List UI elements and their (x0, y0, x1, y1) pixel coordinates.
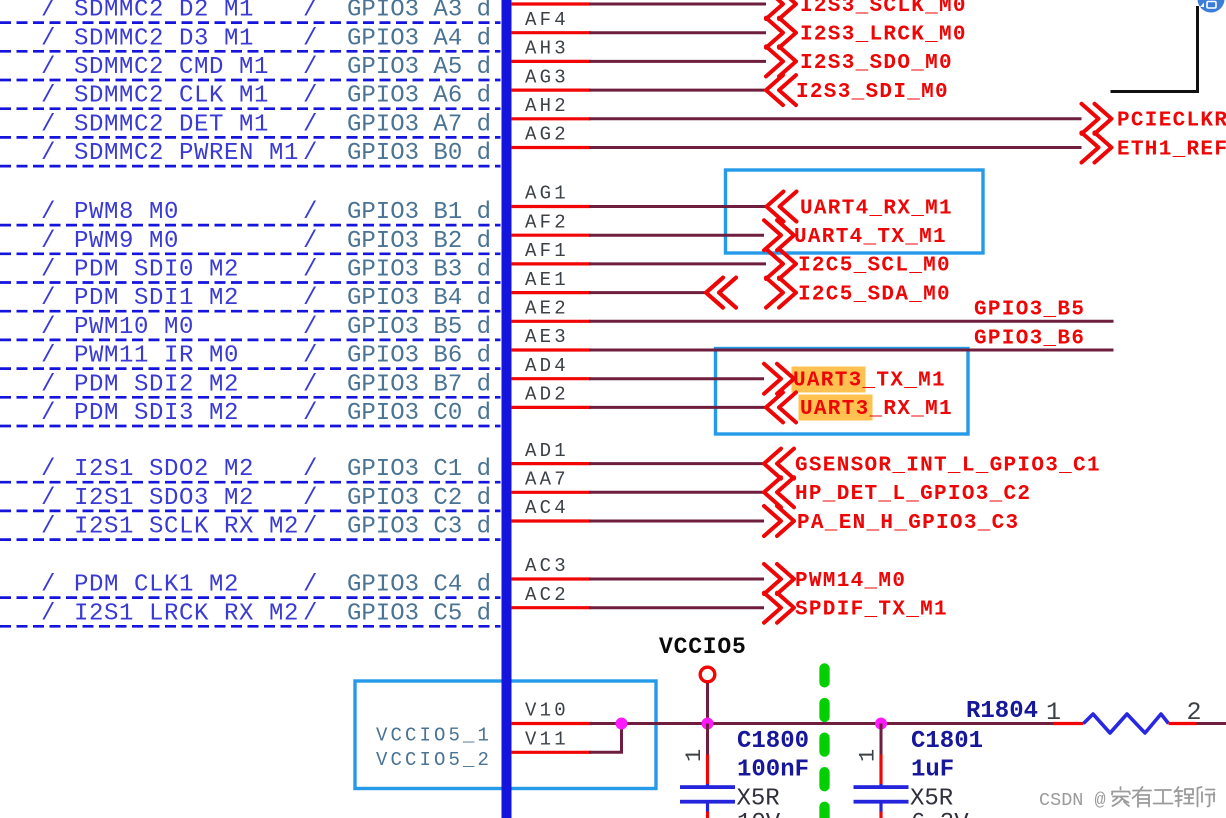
wire pin stub AG2 net ETH1_REFCL (511, 146, 591, 149)
off-page connector output UART4_TX_M1 (764, 220, 947, 250)
svg-text:GPIO3 B6 d: GPIO3 B6 d (347, 343, 491, 370)
svg-text:GPIO3 C1 d: GPIO3 C1 d (347, 456, 491, 483)
svg-text:SDMMC2 CLK M1: SDMMC2 CLK M1 (74, 83, 269, 110)
svg-text:V10: V10 (525, 700, 569, 722)
off-page connector output PCIECLKREQ (1082, 104, 1226, 134)
node alternate function label PWM9_M0 / GPIO3_B2_d (41, 228, 491, 255)
wire net HP_DET_L_GPIO3_C2 (589, 491, 764, 494)
svg-text:2: 2 (1187, 698, 1202, 727)
svg-text:/: / (303, 0, 318, 24)
chip symbol body edge (GPIO3 bank) (502, 0, 512, 818)
off-page connector output UART3_TX_M1 (764, 364, 946, 394)
svg-text:PWM8 M0: PWM8 M0 (74, 199, 179, 226)
svg-text:SDMMC2 PWREN M1: SDMMC2 PWREN M1 (74, 140, 299, 167)
wire dashed alternate-function line 12 (0, 367, 501, 370)
svg-text:10V: 10V (737, 810, 781, 818)
svg-text:GPIO3 A5 d: GPIO3 A5 d (347, 54, 491, 81)
svg-text:VCCIO5: VCCIO5 (659, 634, 747, 660)
svg-text:PWM14_M0: PWM14_M0 (795, 570, 906, 593)
node alternate function label SDMMC2_PWREN_M1 / GPIO3_B0_d (41, 140, 491, 167)
junction node C1801 (875, 718, 887, 730)
wire net I2S3_SCLK_M0 (589, 3, 766, 6)
off-page connector output I2S3_SCLK_M0 (766, 0, 967, 19)
off-page connector output I2C5_SCL_M0 (766, 249, 951, 279)
wire pin stub AE3 net GPIO3_B6 (511, 348, 591, 351)
highlight search-match UART3 (TX) (792, 367, 866, 393)
wire pin stub V11 (511, 751, 591, 754)
svg-text:GPIO3 B2 d: GPIO3 B2 d (347, 228, 491, 255)
wire net PA_EN_H_GPIO3_C3 (589, 520, 764, 523)
wire pin stub AD2 net UART3_RX_M1 (511, 406, 591, 409)
svg-text:/: / (41, 257, 56, 284)
capacitor C1801 (854, 724, 909, 818)
svg-text:/: / (41, 228, 56, 255)
svg-text:X5R: X5R (910, 786, 953, 813)
svg-text:/: / (41, 371, 56, 398)
svg-text:/: / (41, 140, 56, 167)
wire pin stub AC3 net PWM14_M0 (511, 577, 591, 580)
svg-text:UART3_TX_M1: UART3_TX_M1 (793, 370, 946, 393)
wire net UART4_TX_M1 (589, 234, 764, 237)
svg-text:AD2: AD2 (525, 384, 569, 406)
svg-text:AE1: AE1 (525, 269, 569, 291)
svg-text:AE3: AE3 (525, 326, 569, 348)
svg-text:/: / (41, 25, 56, 52)
svg-text:PDM SDI2 M2: PDM SDI2 M2 (74, 371, 239, 398)
svg-text:PDM CLK1 M2: PDM CLK1 M2 (74, 572, 239, 599)
wire pin stub AH3 net I2S3_SDO_M0 (511, 60, 591, 63)
off-page connector input HP_DET_L_GPIO3_C2 (764, 477, 1031, 507)
node alternate function label PWM10_M0 / GPIO3_B5_d (41, 314, 491, 341)
svg-text:/: / (41, 600, 56, 627)
wire dashed alternate-function line 19 (0, 625, 501, 628)
node alternate function label I2S1_SDO2_M2 / GPIO3_C1_d (41, 456, 491, 483)
wire V11 to V10 join (589, 724, 622, 753)
node alternate function label I2S1_LRCK_RX_M2 / GPIO3_C5_d (41, 600, 491, 627)
off-page connector input GSENSOR_INT_L_GPIO3_C1 (764, 449, 1101, 479)
svg-text:GPIO3 C2 d: GPIO3 C2 d (347, 485, 491, 512)
wire dashed alternate-function line 15 (0, 481, 501, 484)
svg-text:I2S1 SCLK RX M2: I2S1 SCLK RX M2 (74, 514, 299, 541)
svg-text:ETH1_REFCL: ETH1_REFCL (1117, 138, 1226, 161)
off-page connector output ETH1_REFCL (1082, 133, 1226, 163)
svg-text:/: / (41, 314, 56, 341)
wire pin stub AC4 net PA_EN_H_GPIO3_C3 (511, 519, 591, 522)
wire net GPIO3_B6 (589, 349, 1114, 352)
svg-text:GPIO3 B0 d: GPIO3 B0 d (347, 140, 491, 167)
svg-text:GPIO3_B5: GPIO3_B5 (974, 299, 1085, 322)
svg-text:GSENSOR_INT_L_GPIO3_C1: GSENSOR_INT_L_GPIO3_C1 (795, 454, 1101, 477)
node alternate function label I2S1_SCLK_RX_M2 / GPIO3_C3_d (41, 514, 491, 541)
svg-text:AE2: AE2 (525, 298, 569, 320)
svg-text:AD4: AD4 (525, 355, 569, 377)
svg-text:SDMMC2 D2 M1: SDMMC2 D2 M1 (74, 0, 254, 24)
svg-text:V11: V11 (525, 729, 569, 751)
junction node V10/V11 (616, 718, 628, 730)
svg-text:CSDN @: CSDN @ (1039, 790, 1106, 811)
svg-text:/: / (303, 111, 318, 138)
wire dashed alternate-function line 16 (0, 510, 501, 513)
node alternate function label SDMMC2_D2_M1 / GPIO3_A3_d (41, 0, 491, 24)
svg-text:C1800: C1800 (737, 728, 809, 755)
svg-text:AG2: AG2 (525, 124, 569, 146)
CSDN floating toolbar icon (1198, 0, 1225, 13)
svg-text:PDM SDI1 M2: PDM SDI1 M2 (74, 285, 239, 312)
node alternate function label SDMMC2_CMD_M1 / GPIO3_A5_d (41, 54, 491, 81)
annotation highlight box VCCIO5 pins (355, 681, 656, 789)
chip symbol body edge (over box) (502, 675, 512, 818)
wire pin stub top net I2S3_SCLK_M0 (511, 2, 591, 5)
svg-text:/: / (41, 514, 56, 541)
node alternate function label SDMMC2_CLK_M1 / GPIO3_A6_d (41, 83, 491, 110)
off-page connector output PA_EN_H_GPIO3_C3 (764, 506, 1019, 536)
svg-text:/: / (303, 314, 318, 341)
svg-text:SDMMC2 DET M1: SDMMC2 DET M1 (74, 111, 269, 138)
svg-text:100nF: 100nF (737, 757, 809, 784)
off-page connector input UART4_RX_M1 (767, 192, 953, 222)
wire dashed alternate-function line 3 (0, 79, 501, 82)
svg-text:/: / (303, 400, 318, 427)
svg-text:AG1: AG1 (525, 183, 569, 205)
wire dashed alternate-function line 10 (0, 310, 501, 313)
svg-text:/: / (41, 0, 56, 24)
node alternate function label PDM_CLK1_M2 / GPIO3_C4_d (41, 572, 491, 599)
svg-text:/: / (41, 54, 56, 81)
node alternate function label I2S1_SDO3_M2 / GPIO3_C2_d (41, 485, 491, 512)
wire pin stub AH2 net PCIECLKREQ (511, 117, 591, 120)
svg-text:/: / (41, 83, 56, 110)
wire dashed alternate-function line 9 (0, 281, 501, 284)
node alternate function label SDMMC2_D3_M1 / GPIO3_A4_d (41, 25, 491, 52)
node alternate function label PWM11_IR_M0 / GPIO3_B6_d (41, 343, 491, 370)
wire VCCIO5 bus (590, 722, 1053, 725)
resistor R1804 (1053, 714, 1226, 733)
svg-text:/: / (303, 54, 318, 81)
svg-text:GPIO3 A6 d: GPIO3 A6 d (347, 83, 491, 110)
svg-text:/: / (41, 111, 56, 138)
svg-text:AF1: AF1 (525, 240, 569, 262)
svg-text:AH2: AH2 (525, 95, 569, 117)
wire dashed alternate-function line 17 (0, 538, 501, 541)
svg-text:VCCIO5_2: VCCIO5_2 (376, 749, 492, 771)
wire dashed alternate-function line 11 (0, 339, 501, 342)
svg-text:6.3V: 6.3V (911, 810, 969, 818)
capacitor C1800 (680, 724, 735, 818)
wire net I2S3_SDO_M0 (589, 60, 766, 63)
off-page connector output I2S3_SDO_M0 (766, 46, 953, 76)
wire net I2C5_SCL_M0 (589, 262, 766, 265)
wire net SPDIF_TX_M1 (589, 606, 764, 609)
highlight search-match UART3 (RX) (799, 395, 873, 421)
svg-text:PWM10 M0: PWM10 M0 (74, 314, 194, 341)
off-page connector output marker I2C5_SDA_M0 (766, 278, 796, 308)
green dashed page-split line (819, 668, 829, 818)
svg-text:/: / (41, 485, 56, 512)
wire VCCIO5 symbol to bus (706, 683, 709, 724)
svg-text:/: / (303, 199, 318, 226)
node alternate function label PDM_SDI3_M2 / GPIO3_C0_d (41, 400, 491, 427)
node alternate function label PDM_SDI0_M2 / GPIO3_B3_d (41, 257, 491, 284)
svg-text:R1804: R1804 (966, 698, 1038, 725)
svg-text:I2S3_SDO_M0: I2S3_SDO_M0 (800, 52, 953, 75)
wire net GSENSOR_INT_L_GPIO3_C1 (589, 462, 764, 465)
svg-text:SPDIF_TX_M1: SPDIF_TX_M1 (795, 599, 948, 622)
svg-text:GPIO3 B1 d: GPIO3 B1 d (347, 199, 491, 226)
svg-text:GPIO3 C5 d: GPIO3 C5 d (347, 600, 491, 627)
svg-text:UART3_RX_M1: UART3_RX_M1 (800, 398, 953, 421)
svg-text:HP_DET_L_GPIO3_C2: HP_DET_L_GPIO3_C2 (795, 483, 1031, 506)
svg-text:UART4_TX_M1: UART4_TX_M1 (794, 226, 947, 249)
node alternate function label PDM_SDI1_M2 / GPIO3_B4_d (41, 285, 491, 312)
wire dashed alternate-function line 14 (0, 425, 501, 428)
watermark CSDN @家有工程师 (1039, 787, 1215, 811)
svg-text:SDMMC2 D3 M1: SDMMC2 D3 M1 (74, 25, 254, 52)
svg-text:GPIO3 C0 d: GPIO3 C0 d (347, 400, 491, 427)
svg-text:GPIO3 C4 d: GPIO3 C4 d (347, 572, 491, 599)
svg-text:/: / (303, 228, 318, 255)
svg-text:AC3: AC3 (525, 555, 569, 577)
wire net PWM14_M0 (589, 578, 764, 581)
svg-text:/: / (41, 400, 56, 427)
power symbol VCCIO5 circle (700, 667, 715, 682)
svg-text:1uF: 1uF (911, 757, 954, 784)
wire pin stub AG1 net UART4_RX_M1 (511, 205, 591, 208)
svg-text:AD1: AD1 (525, 440, 569, 462)
svg-text:PDM SDI3 M2: PDM SDI3 M2 (74, 400, 239, 427)
svg-text:I2C5_SDA_M0: I2C5_SDA_M0 (798, 283, 951, 306)
wire net GPIO3_B5 (589, 320, 1114, 323)
svg-text:/: / (41, 456, 56, 483)
off-page connector input I2S3_SDI_M0 (766, 75, 949, 105)
wire pin stub AA7 net HP_DET_L_GPIO3_C2 (511, 491, 591, 494)
svg-text:GPIO3 B4 d: GPIO3 B4 d (347, 285, 491, 312)
svg-text:I2S1 LRCK RX M2: I2S1 LRCK RX M2 (74, 600, 299, 627)
svg-text:UART4_RX_M1: UART4_RX_M1 (800, 197, 953, 220)
off-page connector input UART3_RX_M1 (766, 392, 953, 422)
svg-text:AH3: AH3 (525, 38, 569, 60)
wire dashed alternate-function line 4 (0, 107, 501, 110)
svg-text:/: / (303, 514, 318, 541)
svg-text:C1801: C1801 (911, 728, 983, 755)
svg-text:1: 1 (1046, 698, 1061, 727)
wire dashed alternate-function line 13 (0, 396, 501, 399)
svg-text:/: / (303, 257, 318, 284)
svg-text:GPIO3 A3 d: GPIO3 A3 d (347, 0, 491, 24)
node alternate function label PWM8_M0 / GPIO3_B1_d (41, 199, 491, 226)
svg-text:/: / (41, 572, 56, 599)
svg-text:/: / (41, 343, 56, 370)
svg-text:PDM SDI0 M2: PDM SDI0 M2 (74, 257, 239, 284)
svg-text:/: / (303, 485, 318, 512)
svg-text:GPIO3 A7 d: GPIO3 A7 d (347, 111, 491, 138)
wire dashed alternate-function line 1 (0, 21, 501, 24)
svg-text:AC2: AC2 (525, 584, 569, 606)
svg-text:1: 1 (856, 749, 881, 762)
svg-text:/: / (41, 199, 56, 226)
wire net I2S3_SDI_M0 (589, 89, 766, 92)
off-page connector output PWM14_M0 (764, 564, 906, 594)
svg-text:/: / (303, 140, 318, 167)
wire black corner line (image crop artifact) (1111, 6, 1198, 92)
svg-text:AF4: AF4 (525, 9, 569, 31)
wire pin stub AE2 net GPIO3_B5 (511, 320, 591, 323)
wire net UART3_TX_M1 (589, 377, 764, 380)
svg-text:/: / (303, 285, 318, 312)
svg-text:/: / (303, 600, 318, 627)
svg-text:AC4: AC4 (525, 497, 569, 519)
annotation highlight box UART4 (726, 170, 984, 253)
svg-text:I2S3_LRCK_M0: I2S3_LRCK_M0 (800, 24, 967, 47)
wire dashed alternate-function line 18 (0, 596, 501, 599)
wire pin stub AF1 net I2C5_SCL_M0 (511, 262, 591, 265)
svg-text:GPIO3 A4 d: GPIO3 A4 d (347, 25, 491, 52)
wire dashed alternate-function line 8 (0, 252, 501, 255)
svg-text:/: / (303, 371, 318, 398)
wire pin stub AF2 net UART4_TX_M1 (511, 234, 591, 237)
wire dashed alternate-function line 6 (0, 165, 501, 168)
wire dashed alternate-function line 2 (0, 50, 501, 53)
wire pin stub AD4 net UART3_TX_M1 (511, 377, 591, 380)
annotation highlight box UART3 (716, 349, 969, 435)
svg-text:/: / (303, 83, 318, 110)
svg-text:/: / (303, 456, 318, 483)
svg-text:GPIO3 B7 d: GPIO3 B7 d (347, 371, 491, 398)
wire net UART4_RX_M1 (589, 205, 767, 208)
wire net PCIECLKREQ (589, 117, 1082, 120)
off-page connector output I2S3_LRCK_M0 (766, 18, 967, 48)
svg-text:/: / (41, 285, 56, 312)
svg-text:AF2: AF2 (525, 211, 569, 233)
svg-text:VCCIO5_1: VCCIO5_1 (376, 725, 492, 747)
wire net UART3_RX_M1 (589, 406, 766, 409)
wire net ETH1_REFCL (589, 146, 1082, 149)
node alternate function label SDMMC2_DET_M1 / GPIO3_A7_d (41, 111, 491, 138)
svg-text:SDMMC2 CMD M1: SDMMC2 CMD M1 (74, 54, 269, 81)
svg-text:GPIO3 B5 d: GPIO3 B5 d (347, 314, 491, 341)
svg-text:GPIO3_B6: GPIO3_B6 (974, 327, 1085, 350)
wire pin stub AE1 net I2C5_SDA_M0 (511, 291, 591, 294)
svg-text:/: / (303, 25, 318, 52)
svg-text:I2S1 SDO2 M2: I2S1 SDO2 M2 (74, 456, 254, 483)
svg-text:I2S3_SDI_M0: I2S3_SDI_M0 (796, 81, 949, 104)
svg-text:X5R: X5R (737, 786, 780, 813)
wire pin stub V10 (511, 722, 592, 725)
svg-text:I2S1 SDO3 M2: I2S1 SDO3 M2 (74, 485, 254, 512)
svg-text:/: / (303, 343, 318, 370)
wire pin stub AF4 net I2S3_LRCK_M0 (511, 31, 591, 34)
wire pin stub AC2 net SPDIF_TX_M1 (511, 606, 591, 609)
wire net I2C5_SDA_M0 (589, 291, 706, 294)
wire dashed alternate-function line 5 (0, 136, 501, 139)
off-page connector input I2C5_SDA_M0 (706, 278, 951, 308)
svg-text:/: / (303, 572, 318, 599)
junction node VCCIO5 (702, 718, 714, 730)
wire dashed alternate-function line 7 (0, 224, 501, 227)
svg-text:AA7: AA7 (525, 469, 569, 491)
svg-text:GPIO3 C3 d: GPIO3 C3 d (347, 514, 491, 541)
svg-text:PCIECLKREQ: PCIECLKREQ (1117, 110, 1226, 133)
off-page connector input I2C5_SDA_M0 (wire end) (706, 278, 736, 308)
svg-text:PWM9 M0: PWM9 M0 (74, 228, 179, 255)
svg-text:I2C5_SCL_M0: I2C5_SCL_M0 (798, 255, 951, 278)
svg-text:PWM11 IR M0: PWM11 IR M0 (74, 343, 239, 370)
svg-text:GPIO3 B3 d: GPIO3 B3 d (347, 257, 491, 284)
wire pin stub AG3 net I2S3_SDI_M0 (511, 88, 591, 91)
off-page connector output SPDIF_TX_M1 (764, 593, 948, 623)
svg-text:PA_EN_H_GPIO3_C3: PA_EN_H_GPIO3_C3 (797, 512, 1019, 535)
wire pin stub AD1 net GSENSOR_INT_L_GPIO3_C1 (511, 462, 591, 465)
wire net I2S3_LRCK_M0 (589, 31, 766, 34)
node alternate function label PDM_SDI2_M2 / GPIO3_B7_d (41, 371, 491, 398)
svg-text:I2S3_SCLK_M0: I2S3_SCLK_M0 (800, 0, 967, 18)
svg-text:AG3: AG3 (525, 66, 569, 88)
svg-text:1: 1 (682, 749, 707, 762)
